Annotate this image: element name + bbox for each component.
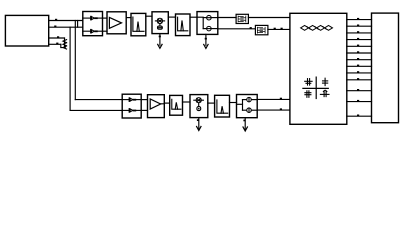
left box U1 (source module): [5, 15, 48, 46]
filter F2: [176, 14, 191, 36]
amplifier A2: [148, 95, 165, 118]
wire S1 top output to W1: [218, 17, 236, 19]
bus ladder wires U2 to U3: [347, 20, 372, 117]
phase element top circle of S1: [207, 15, 212, 20]
filter F3: [170, 95, 183, 115]
wire F3 to X2: [183, 101, 191, 103]
diode block D1: [83, 12, 103, 36]
wire V1 horizontal to D2: [70, 109, 122, 111]
node tick on pin4: [56, 43, 58, 45]
SAW filter W1: [236, 14, 248, 23]
wire W2 to main block: [268, 28, 290, 30]
diode block D2: [122, 94, 141, 118]
trimmer capacitor CT4 (bottom-right): [320, 90, 329, 97]
processor block U3: [372, 13, 399, 123]
wire S2 top output to main block: [257, 98, 290, 100]
wire vertical bus V2 (pin1 to lower chain input1): [74, 21, 76, 100]
filter F4: [215, 95, 230, 117]
wire F2 to S1: [190, 16, 197, 18]
wire W1 to main block: [248, 17, 290, 19]
splitter S2: [237, 95, 258, 118]
wire F4 to S2: [230, 102, 237, 104]
node ticks on W2 output wire: [274, 28, 276, 30]
coupling loop L1 inside U2: [301, 26, 333, 31]
node ticks on ladder wires: [357, 18, 359, 116]
node tick on pin3: [57, 36, 59, 38]
wire A2 to F3: [164, 102, 169, 104]
trimmer capacitor CT1 (top-left): [305, 79, 312, 86]
wire S1 bottom output to W2: [218, 28, 256, 30]
node tick on pin1: [55, 19, 57, 21]
wire F1 to X1: [146, 15, 152, 17]
filter F1: [131, 13, 146, 35]
chevron marks on pin3 node: [63, 40, 67, 49]
amplifier A1: [107, 12, 126, 34]
node cross inside U2: [315, 77, 317, 98]
wire pin3 vertical drop: [64, 38, 66, 47]
oscillator glyph inside X2: [197, 107, 201, 111]
wire vertical bus V1 (pin2 to lower chain input2): [69, 27, 71, 110]
wire D2 to A2 upper: [141, 99, 147, 101]
node tick on S2 top wire: [280, 98, 282, 100]
splitter S1: [197, 12, 218, 35]
diode D2a: [122, 97, 141, 102]
ground arrow below X2: [198, 118, 200, 130]
phase element bottom circle of S2: [247, 108, 252, 113]
wire pin3 of U1: [49, 37, 65, 39]
wire pin1 of U1: [49, 20, 83, 22]
trimmer capacitor CT3 (bottom-left): [305, 91, 311, 98]
wire D1 to A1 lower: [103, 30, 108, 32]
node tick on pin2: [54, 26, 56, 28]
diode D1a: [83, 16, 103, 21]
wire jumper between pin1 and pin2: [77, 21, 79, 28]
mixer X1: [152, 12, 168, 34]
phase element bottom circle of S1: [207, 26, 212, 31]
wire A1 to F1: [126, 17, 131, 19]
wire X2 to F4: [208, 102, 215, 104]
diode D1b: [83, 29, 103, 34]
trimmer capacitor CT2 (top-right): [323, 78, 328, 85]
wire pin4 of U1: [49, 43, 61, 45]
wire V2 horizontal to D2: [75, 99, 122, 101]
wire D1 to A1 upper: [103, 17, 108, 19]
wire pin2 of U1: [49, 26, 83, 28]
node tick on S2 bottom wire: [280, 108, 282, 110]
node tick before W2: [250, 27, 252, 29]
wire pin4 hook: [61, 44, 65, 47]
main block U2: [290, 13, 347, 124]
phase element top circle of S2: [247, 97, 252, 102]
ground arrow below X1: [159, 34, 161, 46]
wire S2 bottom output to main block: [257, 109, 290, 111]
ground arrow below S1: [205, 34, 207, 45]
diode D2b: [122, 108, 141, 113]
oscillator glyph inside X1: [158, 26, 163, 29]
wire X1 to F2: [168, 16, 175, 18]
mixer X2: [190, 95, 208, 118]
wire D2 to A2 lower: [141, 109, 147, 111]
ground arrow below S2: [244, 118, 246, 130]
SAW filter W2: [255, 25, 268, 34]
